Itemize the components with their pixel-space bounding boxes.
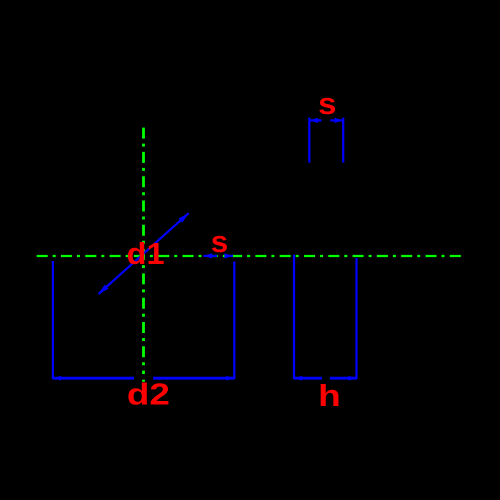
d2 dimension line right segment: [153, 377, 234, 380]
d2 dimension line left segment: [53, 377, 134, 380]
horizontal center line: [37, 255, 462, 257]
s left arrowhead right: [224, 253, 233, 258]
d2 arrowhead right: [226, 376, 234, 381]
s left arrowhead left: [204, 253, 213, 258]
head front view left edge: [52, 261, 54, 379]
h dimension line right segment: [330, 377, 357, 380]
s top dimension line right segment: [330, 119, 343, 121]
vertical center line end dot: [142, 380, 145, 382]
h arrowhead left: [294, 376, 302, 381]
d1 arrowhead lower: [99, 285, 109, 294]
s left dimension line right segment: [225, 255, 233, 257]
d1 diagonal dimension shaft: [99, 213, 189, 294]
svg-text:d1: d1: [127, 236, 165, 271]
s top arrowhead left: [309, 118, 318, 123]
head front view right edge: [233, 262, 235, 380]
s top dimension line left segment: [309, 119, 321, 121]
slot right extension line: [342, 118, 344, 163]
s left dimension line left segment: [204, 255, 218, 257]
svg-text:s: s: [211, 224, 229, 259]
h dimension line left segment: [294, 377, 322, 380]
svg-text:h: h: [318, 378, 341, 413]
d1 arrowhead upper: [179, 213, 189, 222]
side view left edge: [293, 255, 295, 380]
vertical center line: [142, 128, 145, 374]
side view right edge: [355, 258, 357, 379]
slot left extension line: [308, 118, 310, 163]
s top arrowhead right: [335, 118, 344, 123]
d2 arrowhead left: [53, 376, 61, 381]
h arrowhead right: [348, 376, 356, 381]
svg-text:s: s: [318, 86, 336, 121]
svg-text:d2: d2: [127, 377, 170, 412]
